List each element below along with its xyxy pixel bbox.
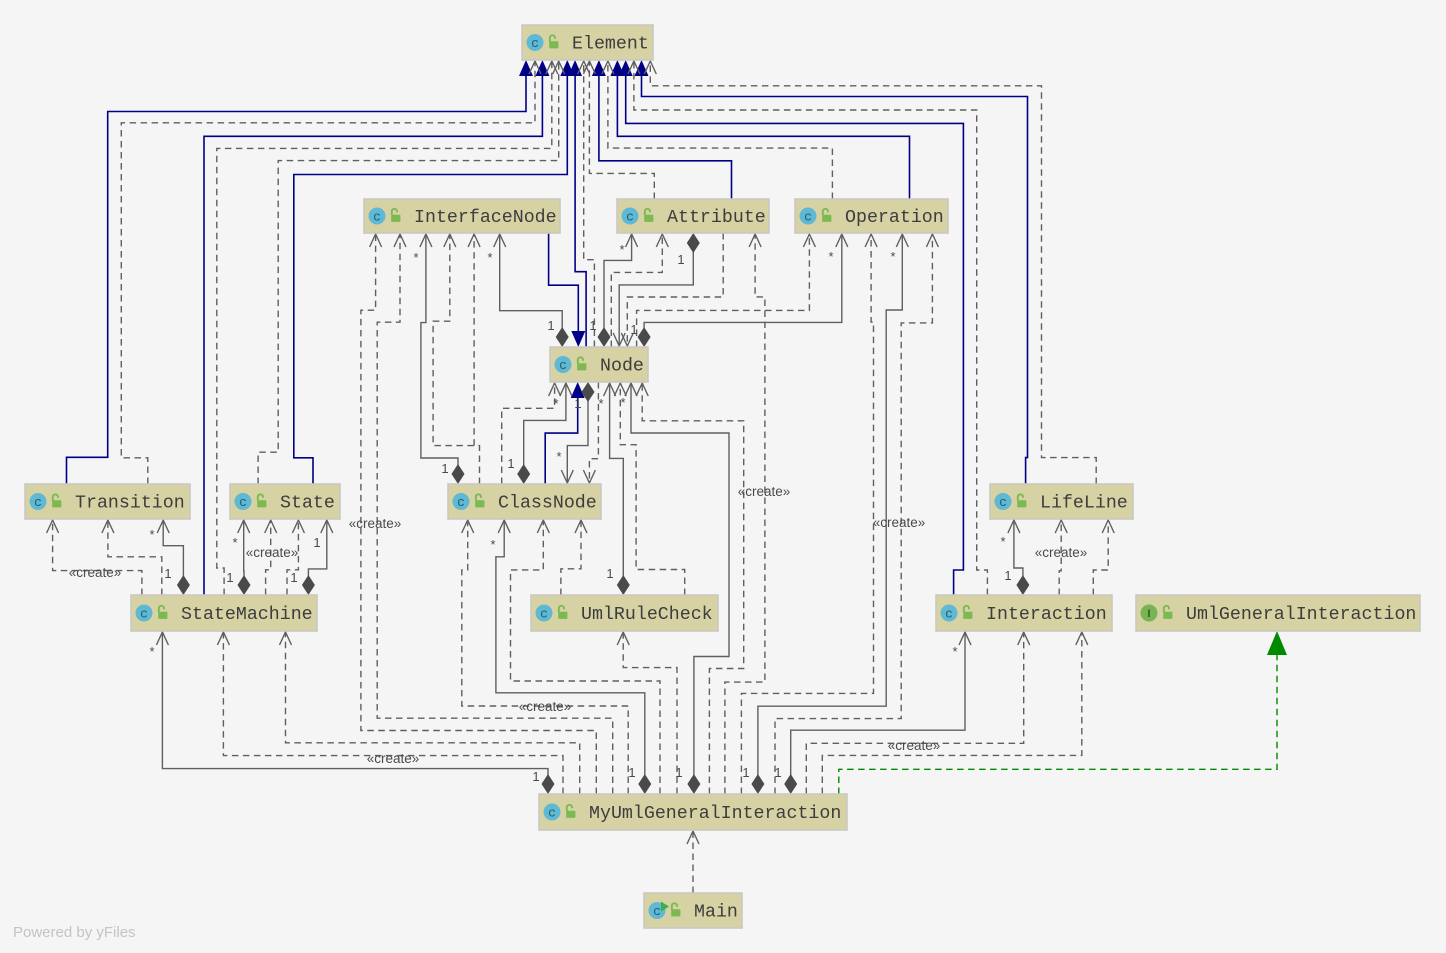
class box: Interaction [936, 595, 1112, 631]
svg-text:*: * [553, 396, 558, 411]
edge: Operation to Element generalization [610, 60, 909, 199]
svg-text:«create»: «create» [246, 545, 299, 560]
svg-text:c: c [457, 495, 465, 510]
class box: Operation [795, 199, 948, 233]
edge: MyUmlGeneralInteraction to InterfaceNode create 2 [361, 233, 596, 794]
svg-text:«create»: «create» [367, 751, 420, 766]
edge: Node to Operation create [637, 233, 816, 347]
edge: Transition to Element generalization [67, 60, 534, 484]
edge: Interaction to LifeLine aggregation [1008, 519, 1030, 595]
edge: Node to Element dependency [578, 60, 595, 347]
svg-text:*: * [828, 249, 833, 264]
svg-text:c: c [34, 495, 42, 510]
svg-text:*: * [952, 644, 957, 659]
svg-text:1: 1 [675, 765, 682, 780]
svg-text:1: 1 [742, 765, 749, 780]
svg-text:c: c [945, 607, 953, 622]
svg-text:InterfaceNode: InterfaceNode [414, 208, 557, 228]
svg-text:*: * [232, 535, 237, 550]
edge: MyUmlGeneralInteraction to Interaction create 1 [806, 631, 1029, 794]
edge: MyUmlGeneralInteraction to InterfaceNode create 1 [377, 233, 613, 794]
edge: StateMachine to Transition aggregation [157, 519, 190, 595]
svg-text:Main: Main [694, 903, 738, 923]
svg-text:c: c [140, 607, 148, 622]
edge: MyUmlGeneralInteraction to Operation create 1 [741, 233, 877, 794]
edge: LifeLine to Element dependency [644, 60, 1096, 484]
svg-text:*: * [149, 644, 154, 659]
class box: ClassNode [448, 484, 601, 519]
edge: MyUmlGeneralInteraction to StateMachine create 1 [217, 631, 563, 794]
svg-text:Interaction: Interaction [986, 605, 1107, 625]
svg-text:*: * [620, 395, 625, 410]
edge: Node to ClassNode create [583, 382, 598, 484]
edge: ClassNode to Node create [502, 382, 561, 484]
edge: Interaction to Element dependency [628, 60, 988, 595]
edge: MyUmlGeneralInteraction to Attribute create [725, 233, 765, 794]
edge: MyUmlGeneralInteraction to ClassNode create [462, 519, 629, 794]
svg-text:*: * [1000, 534, 1005, 549]
edge: Attribute to Element generalization [592, 60, 732, 199]
svg-text:*: * [413, 250, 418, 265]
edge: Node to Attribute aggregation [598, 233, 638, 347]
edge: Main to MyUmlGeneralInteraction create [687, 830, 699, 893]
svg-text:«create»: «create» [888, 738, 941, 753]
edge: ClassNode to Node generalization [545, 382, 585, 484]
class box: Transition [25, 484, 190, 519]
svg-text:c: c [548, 806, 556, 821]
svg-text:LifeLine: LifeLine [1040, 494, 1128, 514]
edge: MyUmlGeneralInteraction to ClassNode aggregation [496, 519, 651, 794]
svg-text:«create»: «create» [349, 516, 402, 531]
edge: LifeLine to Element generalization [635, 60, 1028, 484]
svg-text:*: * [490, 537, 495, 552]
edge: MyUmlGeneralInteraction to Operation create 2 [775, 233, 938, 794]
svg-text:c: c [373, 210, 381, 225]
edge: InterfaceNode to ClassNode aggregation [420, 233, 465, 484]
svg-text:*: * [598, 396, 603, 411]
edge: StateMachine to State aggregation 2 [302, 519, 333, 595]
svg-text:1: 1 [677, 252, 684, 267]
svg-text:*: * [556, 449, 561, 464]
svg-text:Element: Element [572, 35, 649, 55]
edge: UmlRuleCheck to Node create [614, 382, 684, 595]
svg-text:Powered by yFiles: Powered by yFiles [13, 924, 136, 941]
svg-text:«create»: «create» [738, 484, 791, 499]
edge: UmlRuleCheck to ClassNode create 2 [561, 519, 587, 595]
class box: InterfaceNode [364, 199, 560, 233]
svg-text:«create»: «create» [873, 515, 926, 530]
edge: MyUmlGeneralInteraction to StateMachine create 2 [280, 631, 580, 794]
svg-text:1: 1 [507, 456, 514, 471]
edge: Interaction to LifeLine create 2 [1093, 519, 1114, 595]
svg-text:Node: Node [600, 357, 644, 377]
class box: State [230, 484, 340, 519]
svg-text:«create»: «create» [69, 565, 122, 580]
edge: MyUmlGeneralInteraction to Node aggregation [625, 382, 729, 794]
svg-text:1: 1 [290, 570, 297, 585]
edge: MyUmlGeneralInteraction to StateMachine aggregation [156, 631, 554, 794]
edge: StateMachine to State aggregation 1 [238, 519, 251, 595]
edge: Transition to Element dependency [121, 60, 541, 484]
svg-text:1: 1 [441, 461, 448, 476]
edge: Node to Element generalization [568, 60, 586, 347]
edge: Attribute to Node create [621, 233, 723, 347]
svg-text:c: c [999, 495, 1007, 510]
svg-text:*: * [890, 249, 895, 264]
edge: MyUmlGeneralInteraction to Interaction aggregation [784, 631, 971, 794]
edge: MyUmlGeneralInteraction to Interaction create 2 [822, 631, 1088, 794]
svg-text:1: 1 [547, 318, 554, 333]
svg-text:c: c [626, 210, 634, 225]
edge: InterfaceNode to Node aggregation [494, 233, 569, 347]
edge: StateMachine to State create 2 [287, 519, 304, 595]
class box: Element [522, 25, 653, 60]
edge: MyUmlGeneralInteraction to UmlRuleCheck create [617, 631, 677, 794]
edge: MyUmlGeneralInteraction realizes UmlGeneralInteraction [839, 631, 1287, 794]
edge: Attribute to Element dependency [583, 60, 654, 199]
edge: StateMachine to Element generalization [204, 60, 549, 595]
class box: Main [644, 893, 742, 928]
svg-text:*: * [487, 250, 492, 265]
edge: ClassNode to InterfaceNode create 1 [433, 233, 479, 484]
svg-text:1: 1 [774, 765, 781, 780]
edge: MyUmlGeneralInteraction to Operation aggregation [751, 233, 908, 794]
svg-text:1: 1 [313, 535, 320, 550]
svg-text:«create»: «create» [519, 699, 572, 714]
edge: MyUmlGeneralInteraction to ClassNode create 2 [511, 519, 661, 794]
svg-text:1: 1 [164, 566, 171, 581]
svg-text:1: 1 [628, 765, 635, 780]
svg-text:Operation: Operation [845, 208, 944, 228]
svg-text:StateMachine: StateMachine [181, 605, 313, 625]
edge: UmlRuleCheck to Node aggregation [604, 382, 630, 595]
svg-text:UmlRuleCheck: UmlRuleCheck [581, 605, 713, 625]
edge: StateMachine to Transition create 2 [102, 519, 162, 595]
svg-text:c: c [804, 210, 812, 225]
svg-text:c: c [239, 495, 247, 510]
edge: Node to ClassNode aggregation [561, 382, 594, 484]
class box: Node [550, 347, 648, 382]
class box: LifeLine [990, 484, 1133, 519]
svg-text:Transition: Transition [75, 494, 185, 514]
edge: ClassNode to InterfaceNode create 2 [468, 233, 480, 446]
svg-text:ClassNode: ClassNode [498, 494, 597, 514]
class box: StateMachine [131, 595, 317, 631]
svg-text:1: 1 [606, 566, 613, 581]
class box: Attribute [617, 199, 769, 233]
edge: ClassNode to Node aggregation [517, 382, 572, 484]
class box: MyUmlGeneralInteraction [539, 794, 847, 830]
edge: State to Element generalization [294, 60, 575, 484]
class box: UmlGeneralInteraction [1136, 595, 1420, 631]
edge: StateMachine to Element dependency [217, 60, 558, 595]
svg-text:1: 1 [589, 318, 596, 333]
edge: StateMachine to Transition create 1 [47, 519, 142, 595]
svg-text:c: c [653, 904, 661, 919]
svg-text:c: c [559, 358, 567, 373]
edge: Operation to Element dependency [602, 60, 833, 199]
svg-text:*: * [149, 527, 154, 542]
edge: Node to Attribute create [611, 233, 668, 347]
svg-text:«create»: «create» [1035, 545, 1088, 560]
edge: StateMachine to State create 1 [265, 519, 277, 595]
svg-text:1: 1 [532, 769, 539, 784]
edge: Interaction to LifeLine create 1 [1055, 519, 1067, 595]
svg-text:MyUmlGeneralInteraction: MyUmlGeneralInteraction [589, 804, 841, 824]
svg-text:I: I [1147, 608, 1150, 620]
edge: MyUmlGeneralInteraction to Node create [636, 382, 744, 794]
svg-text:Attribute: Attribute [667, 208, 766, 228]
svg-text:*: * [619, 242, 624, 257]
svg-text:UmlGeneralInteraction: UmlGeneralInteraction [1186, 605, 1416, 625]
svg-text:c: c [540, 607, 548, 622]
svg-text:1: 1 [630, 322, 637, 337]
edge: State to Element dependency [258, 60, 565, 484]
edge: Node to Operation aggregation [638, 233, 848, 347]
svg-text:1: 1 [1004, 568, 1011, 583]
class box: UmlRuleCheck [531, 595, 718, 631]
svg-text:1: 1 [226, 570, 233, 585]
svg-text:1: 1 [574, 396, 581, 411]
edge: InterfaceNode to Node generalization [549, 233, 586, 347]
svg-text:State: State [280, 494, 335, 514]
edge: Attribute to Node aggregation [613, 233, 700, 347]
edge: Interaction to Element generalization [619, 60, 964, 595]
svg-text:c: c [531, 36, 539, 51]
